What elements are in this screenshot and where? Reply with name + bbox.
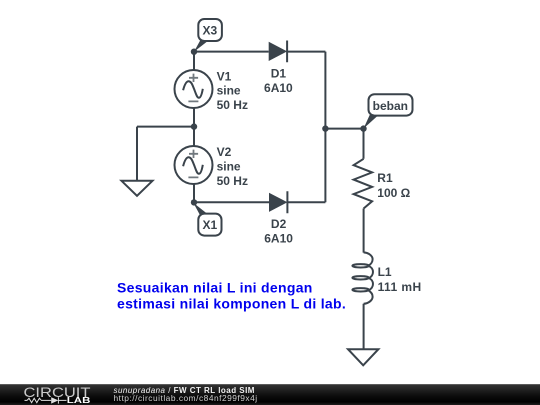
svg-text:http://circuitlab.com/c84nf299: http://circuitlab.com/c84nf299f9x4j xyxy=(114,393,258,403)
svg-text:100 Ω: 100 Ω xyxy=(377,186,410,200)
svg-text:beban: beban xyxy=(373,99,408,113)
svg-text:LAB: LAB xyxy=(67,396,91,405)
svg-text:50 Hz: 50 Hz xyxy=(217,98,248,112)
svg-text:sine: sine xyxy=(217,84,241,98)
svg-text:V1: V1 xyxy=(217,69,232,83)
svg-text:V2: V2 xyxy=(217,145,232,159)
svg-text:6A10: 6A10 xyxy=(264,232,293,246)
svg-text:111 mH: 111 mH xyxy=(378,280,422,294)
svg-text:sine: sine xyxy=(217,159,241,173)
svg-text:D2: D2 xyxy=(271,217,287,231)
svg-text:Sesuaikan nilai L ini dengan: Sesuaikan nilai L ini dengan xyxy=(117,280,313,296)
svg-text:L1: L1 xyxy=(378,265,392,279)
svg-text:50 Hz: 50 Hz xyxy=(217,174,248,188)
svg-text:X1: X1 xyxy=(203,218,218,232)
svg-text:estimasi nilai komponen L di l: estimasi nilai komponen L di lab. xyxy=(117,295,346,311)
svg-text:6A10: 6A10 xyxy=(264,81,293,95)
svg-text:D1: D1 xyxy=(271,67,287,81)
svg-text:X3: X3 xyxy=(203,24,218,38)
svg-text:R1: R1 xyxy=(377,171,393,185)
